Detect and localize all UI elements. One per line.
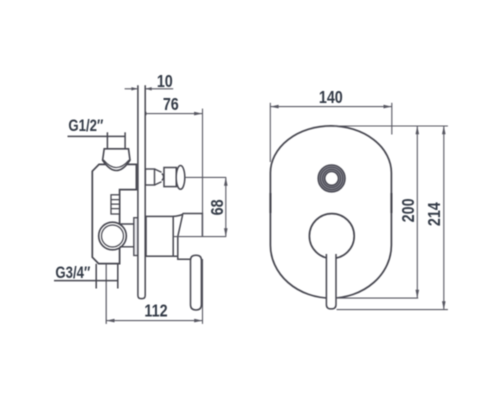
handle sleeve (escutcheon) bbox=[146, 216, 173, 256]
plate bottom reference line bbox=[336, 297, 418, 299]
pipe centreline / 112 extension bbox=[105, 264, 107, 324]
dimension 76 (wall to handle tip) bbox=[138, 109, 202, 214]
diverter knob body bbox=[164, 168, 176, 187]
dimension 214 (overall height) bbox=[443, 126, 445, 310]
dimension 68 (knob to handle axis) bbox=[225, 177, 227, 236]
svg-text:200: 200 bbox=[400, 198, 419, 222]
label G1/2" with leader bbox=[68, 117, 103, 136]
ribbed cartridge block bbox=[111, 195, 120, 214]
oval side tangent marks bbox=[270, 193, 391, 213]
dimension 112 (pipe axis to lever tip) bbox=[106, 320, 202, 322]
svg-text:140: 140 bbox=[319, 89, 343, 108]
mounting flange behind wall plate bbox=[120, 224, 134, 247]
svg-text:76: 76 bbox=[163, 96, 179, 115]
diverter knob stem bbox=[145, 169, 154, 185]
diverter knob end cap bbox=[176, 166, 185, 190]
handle rosette (front circle) bbox=[309, 214, 354, 259]
svg-text:214: 214 bbox=[426, 202, 445, 226]
oval wall plate (front) bbox=[270, 126, 391, 298]
compression nut on top port bbox=[103, 149, 130, 171]
handle centreline bbox=[173, 236, 226, 238]
dimension 200 (plate height) bbox=[416, 126, 418, 298]
diverter knob cone bbox=[155, 169, 164, 185]
76/112 right extension line bbox=[202, 214, 204, 324]
svg-text:10: 10 bbox=[157, 73, 173, 92]
handle cap (side view) bbox=[173, 214, 202, 260]
svg-text:G1/2″: G1/2″ bbox=[68, 117, 103, 136]
G3/4 outlet pipe stub bbox=[96, 264, 118, 289]
valve body bbox=[92, 164, 136, 263]
wall plate (edge-on) bbox=[138, 85, 145, 298]
label G3/4" with leader bbox=[55, 263, 90, 282]
diverter button (concentric rings) bbox=[322, 168, 342, 188]
dimension 10 (plate thickness) bbox=[125, 88, 174, 90]
knob centreline bbox=[185, 176, 226, 178]
svg-text:G3/4″: G3/4″ bbox=[55, 263, 90, 282]
svg-text:68: 68 bbox=[209, 199, 228, 215]
dimension 140 (plate width) bbox=[270, 103, 392, 162]
lever handle (front view) bbox=[326, 254, 336, 309]
lever tip reference line bbox=[337, 309, 448, 311]
G1/2 inlet neck bbox=[107, 132, 125, 148]
svg-text:112: 112 bbox=[144, 302, 167, 321]
lever handle (side view) bbox=[191, 255, 202, 310]
top reference line bbox=[334, 125, 448, 127]
outlet port boss (circle) bbox=[99, 222, 127, 250]
